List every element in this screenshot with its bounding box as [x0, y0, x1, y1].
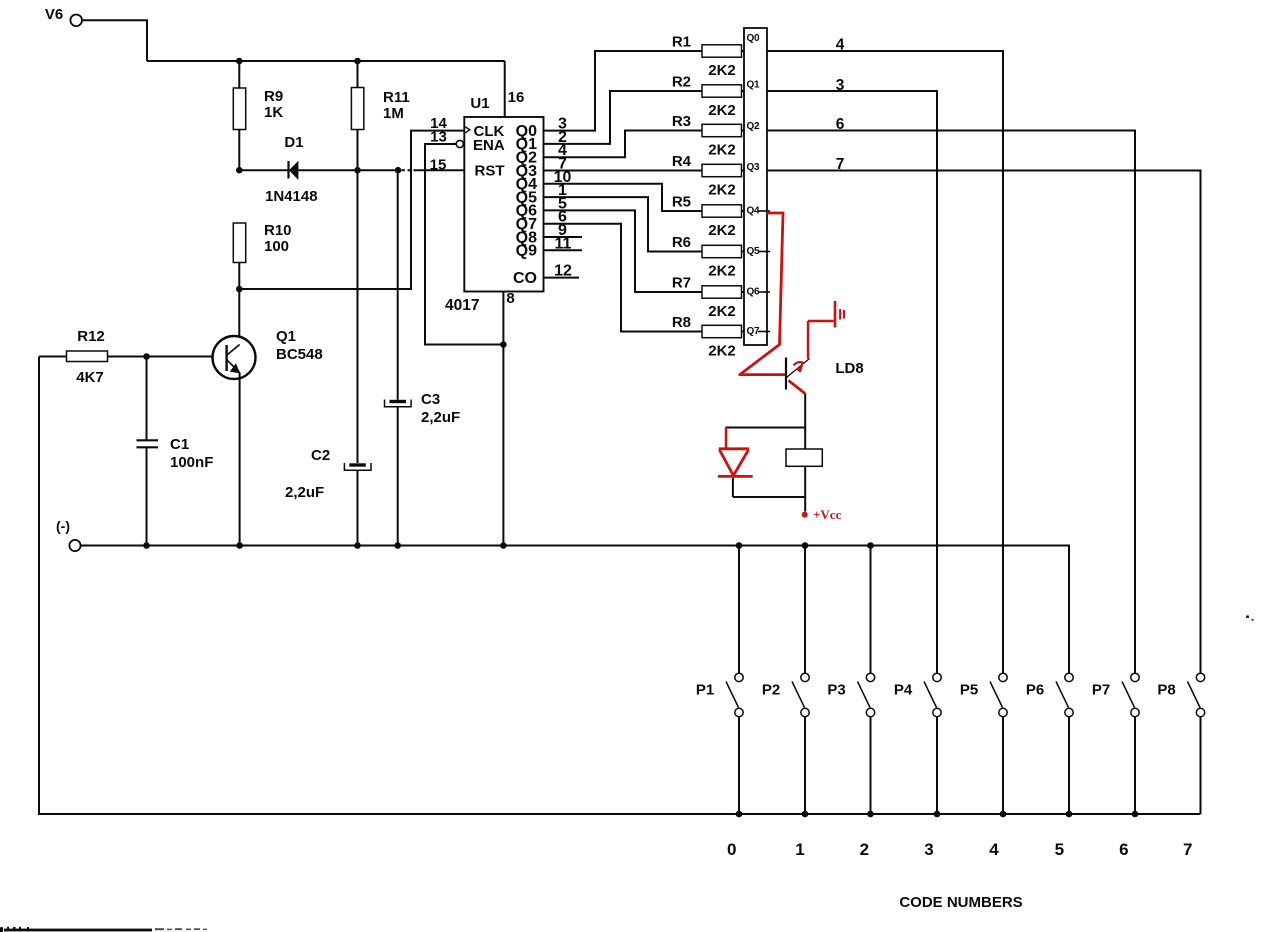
switch P4 top contact [933, 673, 941, 681]
svg-text:100: 100 [264, 238, 289, 255]
flyback diode triangle (red) [719, 447, 750, 450]
switch P4 bottom contact [933, 708, 941, 716]
wire relay to +Vcc [804, 466, 806, 511]
wire connector Q4 row stub [758, 210, 770, 212]
svg-text:R5: R5 [672, 194, 691, 211]
wire U1 pin 6 to R8 [544, 224, 703, 332]
wire U1 pin 3 to R1 [544, 51, 703, 131]
svg-text:P5: P5 [960, 682, 978, 699]
junction C1 / minus rail [143, 542, 150, 549]
junction ENA / pin8 rail [500, 341, 507, 348]
transistor Q1 base bar [225, 345, 227, 371]
junction P6 / bottom rail [1066, 811, 1073, 818]
switch P8 top contact [1196, 673, 1204, 681]
svg-text:P6: P6 [1026, 682, 1044, 699]
switch P6 top contact [1065, 673, 1073, 681]
wire emitter node to diode cathode-top [726, 427, 806, 429]
svg-text:Q5: Q5 [747, 246, 760, 257]
svg-text:R6: R6 [672, 234, 691, 251]
svg-text:Q2: Q2 [747, 121, 760, 132]
svg-text:2K2: 2K2 [708, 343, 736, 360]
svg-text:R1: R1 [672, 34, 691, 51]
svg-text:11: 11 [555, 235, 572, 252]
svg-text:3: 3 [924, 840, 933, 859]
svg-text:P4: P4 [894, 682, 913, 699]
svg-text:V6: V6 [45, 6, 63, 23]
svg-text:Q1: Q1 [276, 328, 296, 345]
svg-text:Q7: Q7 [747, 326, 760, 337]
switch P7 blade [1122, 682, 1135, 708]
junction minus rail / P1 [736, 542, 743, 549]
switch P8 blade [1188, 682, 1201, 708]
wire D1 to RST node [358, 169, 399, 171]
pin 16 wire [504, 61, 506, 117]
svg-text:RST: RST [475, 163, 505, 180]
svg-text:R9: R9 [264, 88, 283, 105]
diode D1 1N4148 [287, 161, 289, 179]
junction R12 / C1 [143, 353, 150, 360]
switch P2 column wire top [804, 546, 806, 674]
junction top rail / R9 [236, 58, 243, 65]
wire connector Q6 row stub [758, 291, 770, 293]
svg-text:R2: R2 [672, 74, 691, 91]
svg-text:7: 7 [1183, 840, 1192, 859]
wire U1 pin 7 to R4 [544, 170, 703, 172]
svg-text:P3: P3 [827, 682, 845, 699]
switch P1 column wire top [738, 546, 740, 674]
transistor LD8 emitter diagonal (red) [789, 381, 806, 394]
pin 8 wire [502, 292, 504, 546]
svg-text:C2: C2 [311, 447, 330, 464]
wire diode bottom [732, 478, 734, 497]
svg-text:4017: 4017 [445, 297, 479, 314]
scan artifact speck right [1246, 616, 1249, 618]
svg-text:4: 4 [989, 840, 999, 859]
switch P1 top contact [735, 673, 743, 681]
wire P8 riser bottom [1200, 717, 1202, 814]
junction R10 bottom / clock feedback [236, 286, 243, 293]
connector block Q0-Q7 [744, 28, 767, 345]
svg-text:0: 0 [727, 840, 736, 859]
resistor R6 2K2 [702, 245, 742, 257]
svg-text:2K2: 2K2 [708, 102, 736, 119]
switch P5 blade [990, 682, 1003, 708]
svg-text:4: 4 [836, 37, 845, 54]
U1 pin 9 stub (Q8) [544, 236, 583, 238]
svg-text:6: 6 [836, 116, 845, 133]
wire V6 feed [82, 20, 147, 61]
switch P3 top contact [866, 673, 874, 681]
wire U1 pin 1 to R6 [544, 197, 703, 251]
junction pin8 / minus rail [500, 542, 507, 549]
svg-text:1: 1 [795, 840, 804, 859]
svg-text:2: 2 [860, 840, 869, 859]
IC U1 4017 body [464, 117, 543, 292]
junction top rail / R11 [354, 58, 361, 65]
switch P8 bottom contact [1196, 708, 1204, 716]
clock input triangle U1 [464, 126, 470, 133]
svg-text:Q3: Q3 [747, 162, 760, 173]
wire U1 pin 10 to R5 [544, 184, 703, 211]
junction P5 / bottom rail [1000, 811, 1007, 818]
transistor LD8 base bar [785, 358, 787, 390]
svg-text:P2: P2 [762, 682, 780, 699]
switch P7 bottom contact [1131, 708, 1139, 716]
svg-text:5: 5 [1055, 840, 1064, 859]
wire U1 pin 4 to R3 [544, 131, 703, 158]
svg-text:R7: R7 [672, 275, 691, 292]
svg-text:3: 3 [836, 77, 845, 94]
transistor LD8 collector arrow (red) [794, 362, 803, 372]
switch P4 blade [924, 682, 937, 708]
svg-text:16: 16 [508, 89, 525, 106]
svg-text:Q0: Q0 [747, 33, 760, 44]
svg-text:1M: 1M [383, 105, 404, 122]
switch P2 bottom contact [801, 708, 809, 716]
wire Q2 output (label 6) to P7 [767, 131, 1135, 674]
svg-text:C3: C3 [421, 391, 440, 408]
switch P6 blade [1056, 682, 1069, 708]
svg-text:R11: R11 [383, 89, 410, 106]
wire connector Q7 row stub [758, 331, 770, 333]
wire P2 bottom [804, 717, 806, 814]
resistor R5 2K2 [702, 205, 742, 217]
transistor Q1 emitter with arrow [227, 360, 240, 373]
junction P2 / bottom rail [802, 811, 809, 818]
svg-text:+Vcc: +Vcc [813, 507, 842, 522]
svg-text:1N4148: 1N4148 [265, 188, 318, 205]
svg-text:D1: D1 [284, 134, 303, 151]
junction RST node [395, 167, 402, 174]
capacitor C2 2,2uF [357, 170, 359, 463]
resistor R12 4K7 [39, 356, 67, 358]
switch P2 top contact [801, 673, 809, 681]
svg-text:R10: R10 [264, 222, 292, 239]
svg-text:2K2: 2K2 [708, 182, 736, 199]
svg-text:CO: CO [513, 270, 537, 287]
svg-text:Q9: Q9 [516, 243, 537, 260]
wire P8 bottom [1200, 717, 1202, 814]
enable input inversion circle U1 [456, 140, 463, 147]
svg-text:CODE NUMBERS: CODE NUMBERS [899, 894, 1022, 911]
flyback diode cathode bar (red) [718, 475, 753, 478]
switch P2 blade [792, 682, 805, 708]
resistor R9 [238, 61, 240, 88]
svg-text:2K2: 2K2 [708, 142, 736, 159]
junction C2 / minus rail [354, 542, 361, 549]
svg-text:Q6: Q6 [747, 287, 760, 298]
svg-text:R4: R4 [672, 153, 692, 170]
wire Q3 output (label 7) to P8 [767, 171, 1201, 674]
junction R11 column / D1 row [354, 167, 361, 174]
svg-text:4K7: 4K7 [76, 369, 104, 386]
wire P6 bottom [1068, 717, 1070, 814]
wire left return [39, 357, 1201, 815]
junction C3 / minus rail [394, 542, 401, 549]
switch P1 blade [726, 682, 739, 708]
svg-text:15: 15 [430, 157, 447, 174]
diode LD8-flyback anode wire (red) [725, 428, 728, 449]
junction Q1 emitter / minus rail [236, 542, 243, 549]
wire Q0 output (label 4) to P5 [767, 51, 1003, 673]
switch P3 blade [858, 682, 871, 708]
svg-text:C1: C1 [170, 436, 189, 453]
svg-text:2,2uF: 2,2uF [285, 484, 324, 501]
junction P4 / bottom rail [934, 811, 941, 818]
node +Vcc (red) [802, 512, 808, 518]
switch P5 top contact [999, 673, 1007, 681]
switch P5 bottom contact [999, 708, 1007, 716]
wire clock feedback [239, 131, 464, 289]
switch P6 bottom contact [1065, 708, 1073, 716]
svg-text:7: 7 [836, 156, 845, 173]
svg-text:Q1: Q1 [747, 80, 760, 91]
svg-text:Q4: Q4 [747, 206, 760, 217]
wire LD8 emitter to relay [804, 394, 806, 450]
junction minus rail / P2 [802, 542, 809, 549]
U1 pin 11 stub (Q9) [544, 249, 583, 251]
wire P5 bottom [1002, 717, 1004, 814]
svg-text:U1: U1 [470, 95, 489, 112]
svg-text:12: 12 [554, 263, 572, 280]
svg-text:2K2: 2K2 [708, 303, 736, 320]
wire Q1 output (label 3) to P4 [767, 91, 937, 673]
resistor R1 2K2 [702, 45, 742, 57]
svg-text:2K2: 2K2 [708, 62, 736, 79]
junction P3 / bottom rail [867, 811, 874, 818]
svg-text:2K2: 2K2 [708, 263, 736, 280]
U1 pin 12 stub (CO) [544, 277, 580, 279]
resistor R3 2K2 [702, 124, 742, 136]
wire RST (dashed segment) [402, 169, 418, 171]
switch P1 bottom contact [735, 708, 743, 716]
svg-text:R8: R8 [672, 314, 691, 331]
switch P7 top contact [1131, 673, 1139, 681]
wire top supply rail [147, 60, 505, 62]
resistor R2 2K2 [702, 85, 742, 97]
svg-text:2,2uF: 2,2uF [421, 409, 460, 426]
svg-text:8: 8 [506, 290, 514, 307]
resistor R8 2K2 [702, 325, 742, 337]
relay coil K1 [786, 449, 822, 466]
wire P7 bottom [1134, 717, 1136, 814]
svg-text:6: 6 [1119, 840, 1128, 859]
capacitor C1 100nF [146, 357, 148, 440]
wire U1 pin 5 to R7 [544, 210, 703, 292]
svg-text:1K: 1K [264, 104, 283, 121]
transistor Q1 collector [227, 345, 240, 356]
svg-text:ENA: ENA [473, 137, 505, 154]
wire Q4 output to LD8 base (red) [740, 213, 783, 375]
svg-text:P7: P7 [1092, 682, 1110, 699]
ground symbol (red) [807, 321, 809, 359]
svg-text:100nF: 100nF [170, 454, 213, 471]
switch P3 bottom contact [866, 708, 874, 716]
wire P3 bottom [870, 717, 872, 814]
wire U1 pin 2 to R2 [544, 91, 703, 144]
resistor R11 [357, 61, 359, 88]
resistor R10 [233, 223, 245, 263]
wire connector Q5 row stub [758, 251, 770, 253]
svg-text:BC548: BC548 [276, 346, 323, 363]
wire ENA to ground rail [425, 144, 503, 345]
capacitor C3 2,2uF [397, 170, 399, 400]
scan artifact bottom-left bar [4, 929, 152, 932]
junction D1 / R9-R10 node [236, 167, 243, 174]
resistor R7 2K2 [702, 286, 742, 298]
wire P1 bottom [738, 717, 740, 814]
svg-text:R3: R3 [672, 113, 691, 130]
svg-text:LD8: LD8 [835, 360, 863, 377]
wire minus rail [81, 546, 1069, 674]
svg-text:P1: P1 [696, 682, 714, 699]
svg-text:R12: R12 [77, 328, 105, 345]
svg-text:2K2: 2K2 [708, 222, 736, 239]
switch P3 column wire top [870, 546, 872, 674]
svg-text:P8: P8 [1157, 682, 1175, 699]
transistor LD8 collector diagonal [787, 359, 810, 378]
junction P7 / bottom rail [1132, 811, 1139, 818]
transistor Q1 BC548 circle [213, 336, 256, 379]
wire base node row [239, 169, 288, 171]
wire P4 bottom [936, 717, 938, 814]
junction P1 / bottom rail [736, 811, 743, 818]
resistor R4 2K2 [702, 164, 742, 176]
svg-text:(-): (-) [56, 518, 70, 534]
junction minus rail / P3 [867, 542, 874, 549]
svg-text:13: 13 [430, 129, 447, 146]
